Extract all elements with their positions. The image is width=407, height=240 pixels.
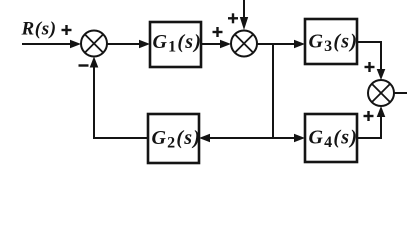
wire G1 to sum2 — [201, 43, 223, 45]
summing junction sum3 — [368, 80, 394, 106]
svg-text:R(s): R(s) — [21, 19, 57, 40]
wire sum2 to G3 — [257, 43, 297, 45]
arrowhead into G3 — [294, 40, 305, 49]
arrowhead down into sum3 top — [377, 69, 386, 80]
wire branch to G2 — [208, 137, 273, 139]
sign + at sum2 left — [213, 27, 223, 37]
svg-text:G3(s): G3(s) — [309, 31, 359, 56]
summing junction sum1 — [81, 31, 107, 57]
wire G4 to sum3 — [357, 115, 381, 138]
wire input R(s) to sum1 — [22, 43, 73, 45]
sign + at sum3 bottom input — [364, 111, 374, 121]
wire top input into sum2 — [243, 0, 245, 19]
arrowhead into sum1 — [70, 40, 81, 49]
sign - at sum1 feedback — [79, 64, 89, 66]
wire sum1 to G1 — [106, 43, 142, 45]
wire branch to G4 — [272, 137, 297, 139]
svg-text:G1(s): G1(s) — [153, 31, 203, 56]
arrowhead into G2 right side — [199, 134, 210, 143]
svg-text:G2(s): G2(s) — [152, 127, 202, 152]
wire sum3 output — [394, 92, 407, 94]
arrowhead down into sum2 top — [240, 17, 248, 30]
arrowhead up into sum3 bottom — [377, 106, 386, 117]
block G2 — [148, 114, 201, 163]
wire G2 to sum1 feedback — [94, 66, 148, 138]
arrowhead into G4 — [294, 134, 305, 143]
block G3 — [305, 19, 358, 64]
arrowhead up into sum1 bottom — [90, 57, 99, 68]
wire G3 to sum3 — [357, 42, 381, 71]
summing junction sum2 — [231, 31, 257, 57]
sign + at sum2 top — [228, 13, 238, 23]
wire branch vertical at node after sum2 — [272, 43, 274, 138]
block G1 — [150, 22, 202, 67]
block G4 — [305, 114, 358, 162]
svg-text:G4(s): G4(s) — [309, 127, 359, 152]
arrowhead into G1 — [139, 40, 150, 49]
sign + at sum1 input — [62, 25, 72, 35]
sign + at sum3 top input — [365, 62, 375, 72]
arrowhead into sum2 left — [220, 40, 231, 49]
